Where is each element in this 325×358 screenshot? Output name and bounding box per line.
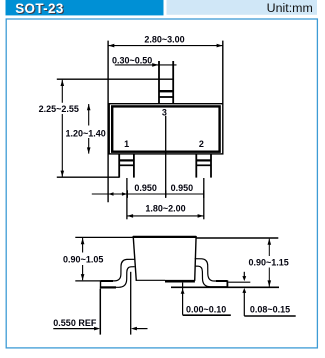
- extension line foot top right: [228, 281, 250, 283]
- svg-text:0.08~0.15: 0.08~0.15: [250, 305, 290, 315]
- left lead foot end cap: [100, 280, 102, 288]
- pitch dimension tick pin2: [203, 190, 205, 198]
- pin 3 tab lead right edge: [172, 61, 174, 104]
- svg-text:0.30~0.50: 0.30~0.50: [112, 56, 152, 66]
- extension line foot left tip: [99, 289, 101, 335]
- arrow lower and leader 0.08~0.15: [243, 293, 245, 316]
- pin 2 bend line 1: [196, 159, 211, 161]
- extension line right (body right edge): [222, 41, 224, 104]
- dimension line 2.80~3.00: [108, 45, 223, 47]
- svg-text:2.25~2.55: 2.25~2.55: [39, 104, 79, 114]
- body top edge: [133, 236, 196, 238]
- extension line bottom of lead span: [57, 176, 120, 178]
- body bottom edge thin part: [136, 279, 165, 281]
- left lead foot bottom thick: [101, 286, 117, 288]
- pin 3 tab lead left edge: [158, 61, 160, 104]
- header light blue band: [167, 0, 318, 15]
- extension line top of lead span: [57, 78, 174, 80]
- pin 1 lead left edge: [118, 154, 120, 178]
- right lead foot end cap: [226, 280, 228, 287]
- pitch arrow at body edge: [108, 192, 113, 195]
- right lead foot top thick: [216, 280, 227, 282]
- label shelf 0.00~0.10: [183, 314, 231, 316]
- arrow upper 0.08~0.15: [243, 272, 245, 277]
- svg-text:1: 1: [124, 139, 129, 149]
- svg-text:Unit:mm: Unit:mm: [267, 1, 313, 15]
- header dark blue bar: [6, 0, 164, 15]
- pin 3 tab bend line 2: [159, 96, 173, 98]
- svg-text:0.950: 0.950: [171, 183, 194, 193]
- dimension line 1.80~2.00: [127, 215, 204, 217]
- svg-text:0.00~0.10: 0.00~0.10: [186, 305, 226, 315]
- pin 3 tab bend line 1: [159, 90, 173, 92]
- svg-text:0.950: 0.950: [134, 183, 157, 193]
- svg-text:2.80~3.00: 2.80~3.00: [144, 34, 184, 44]
- extension line left (body left edge): [107, 41, 109, 203]
- dimension line 0.90~1.15: [268, 239, 270, 287]
- package body outer outline (top view): [109, 104, 223, 154]
- left lead upper edge: [101, 259, 135, 281]
- body left edge: [133, 236, 136, 281]
- pin 2 lead left edge: [195, 154, 197, 178]
- svg-text:1.20~1.40: 1.20~1.40: [65, 128, 105, 138]
- label shelf 0.08~0.15: [244, 315, 295, 317]
- svg-text:SOT-23: SOT-23: [15, 1, 64, 16]
- svg-text:0.90~1.05: 0.90~1.05: [63, 255, 103, 265]
- left lead lower edge: [101, 267, 135, 288]
- dimension line 0.90~1.05: [82, 238, 84, 280]
- svg-text:0.550 REF: 0.550 REF: [53, 318, 97, 328]
- center line pin 3: [165, 116, 167, 197]
- pin 1 bend line 2: [119, 164, 134, 166]
- leader line 0.00~0.10: [182, 283, 184, 315]
- right lead lower edge: [195, 266, 228, 287]
- dimension line 1.20~1.40: [88, 104, 90, 154]
- pitch dimension tick center: [165, 190, 167, 198]
- pin 1 bend line 1: [119, 159, 134, 161]
- pitch arrow at pin1 center: [122, 192, 127, 195]
- svg-text:1.80~2.00: 1.80~2.00: [145, 204, 185, 214]
- extension line foot top left: [75, 280, 100, 282]
- pin 1 lead right edge: [133, 154, 135, 178]
- body right edge: [195, 236, 196, 281]
- extension line below pin1: [126, 178, 128, 219]
- pitch dimension tick pin1: [126, 190, 128, 198]
- extension line below pin2: [203, 178, 205, 219]
- body bottom edge thick part: [165, 280, 195, 283]
- leader line 0.550 REF right arrow: [135, 328, 148, 330]
- leader line 0.550 REF left arrow: [53, 328, 96, 330]
- right lead upper edge: [195, 259, 228, 281]
- extension line body top right: [196, 237, 278, 239]
- dimension leader line 0.30~0.50 with arrow: [115, 64, 177, 66]
- svg-text:2: 2: [199, 139, 204, 149]
- dimension line 2.25~2.55: [61, 80, 63, 177]
- seating plane line: [171, 286, 279, 288]
- pin 2 bend line 2: [196, 164, 211, 166]
- left lead foot top thick: [101, 280, 114, 282]
- seating line under left foot: [100, 286, 116, 288]
- extension line lead bend: [130, 272, 132, 335]
- extension line body top left: [75, 236, 133, 238]
- pin 2 lead right edge: [210, 154, 212, 178]
- package body inner outline (top view): [112, 106, 219, 151]
- svg-text:0.90~1.15: 0.90~1.15: [248, 257, 288, 267]
- pitch dimension line 0.950: [92, 193, 204, 195]
